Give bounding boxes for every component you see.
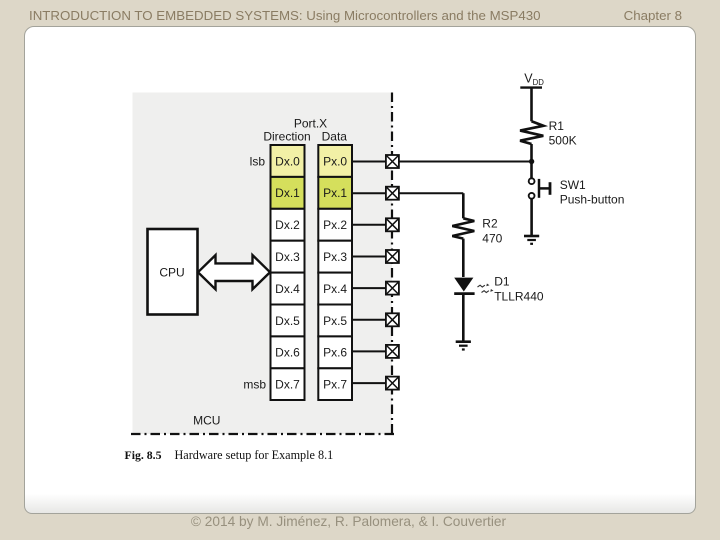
svg-text:R1: R1 (549, 119, 565, 133)
svg-text:Port.X: Port.X (294, 116, 327, 130)
svg-text:Px.2: Px.2 (323, 218, 347, 232)
svg-text:Dx.0: Dx.0 (275, 154, 300, 168)
svg-text:CPU: CPU (159, 266, 184, 280)
svg-text:500K: 500K (549, 134, 577, 148)
svg-text:Px.0: Px.0 (323, 154, 347, 168)
svg-text:D1: D1 (494, 274, 510, 288)
svg-text:Dx.2: Dx.2 (275, 218, 300, 232)
svg-text:SW1: SW1 (560, 178, 586, 192)
svg-text:470: 470 (482, 232, 502, 246)
svg-text:Dx.7: Dx.7 (275, 377, 300, 391)
svg-text:Px.4: Px.4 (323, 282, 347, 296)
svg-text:MCU: MCU (193, 413, 220, 427)
svg-text:Px.6: Px.6 (323, 346, 347, 360)
svg-text:Push-button: Push-button (560, 192, 625, 206)
svg-text:lsb: lsb (250, 155, 266, 169)
svg-text:Direction: Direction (263, 130, 310, 144)
svg-text:R2: R2 (482, 217, 498, 231)
svg-text:Px.1: Px.1 (323, 186, 347, 200)
svg-text:Px.7: Px.7 (323, 377, 347, 391)
svg-text:Dx.6: Dx.6 (275, 346, 300, 360)
svg-text:Fig. 8.5: Fig. 8.5 (125, 448, 162, 462)
svg-text:TLLR440: TLLR440 (494, 290, 544, 304)
svg-text:Hardware setup for Example 8.1: Hardware setup for Example 8.1 (175, 448, 334, 462)
svg-text:Dx.3: Dx.3 (275, 250, 300, 264)
svg-text:Data: Data (322, 129, 348, 143)
svg-text:DD: DD (533, 78, 545, 87)
svg-text:msb: msb (243, 378, 266, 392)
svg-text:Dx.4: Dx.4 (275, 282, 300, 296)
svg-text:Dx.5: Dx.5 (275, 314, 300, 328)
svg-text:Dx.1: Dx.1 (275, 186, 300, 200)
svg-text:Px.5: Px.5 (323, 314, 347, 328)
svg-text:Px.3: Px.3 (323, 250, 347, 264)
